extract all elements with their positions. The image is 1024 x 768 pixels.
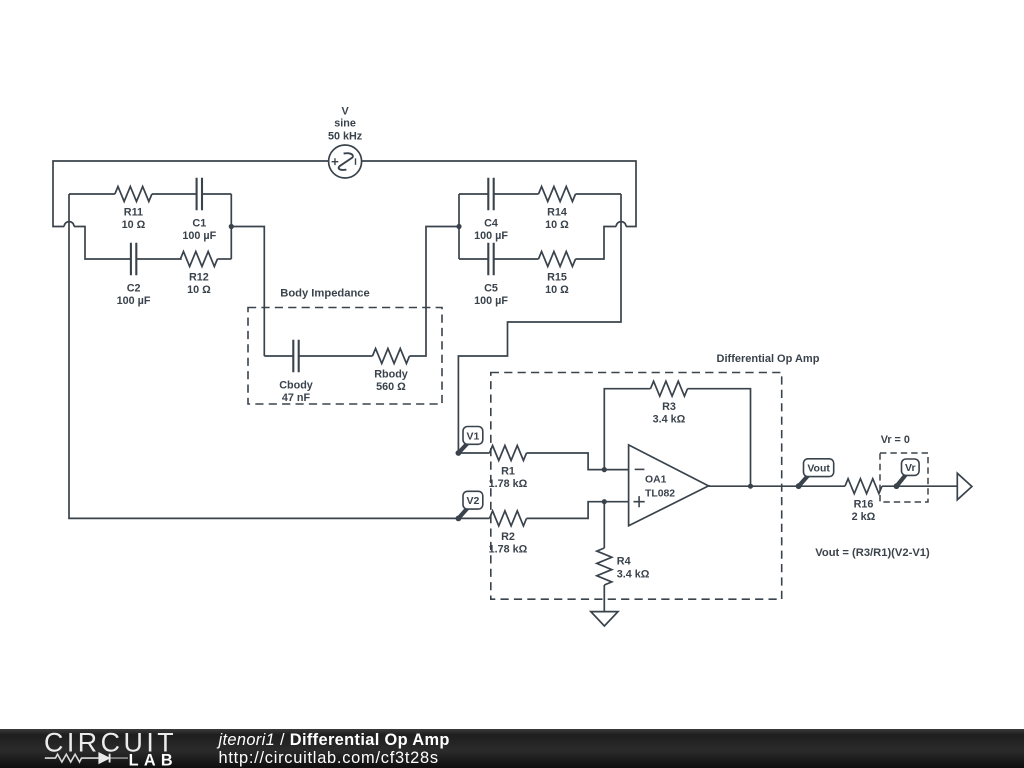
node R3 junction on output: [748, 484, 753, 489]
label V sine 50 kHz: [328, 106, 363, 143]
capacitor C1: [197, 178, 202, 211]
svg-text:C4: C4: [484, 217, 498, 229]
svg-text:3.4 kΩ: 3.4 kΩ: [653, 414, 686, 426]
svg-text:Body Impedance: Body Impedance: [280, 287, 370, 299]
label C2: [117, 282, 151, 307]
label R3: [653, 401, 686, 426]
label Body Impedance title: [280, 287, 370, 299]
ground symbol: [591, 612, 618, 626]
svg-text:1.78 kΩ: 1.78 kΩ: [489, 478, 528, 490]
wire left network right rail: [230, 194, 232, 259]
wire R3 to output: [688, 389, 751, 487]
label R14: [545, 207, 569, 232]
wire to C5 branch: [576, 227, 617, 260]
wire hop over vertical at x=621: [616, 222, 626, 227]
label OA1 TL082: [645, 474, 675, 499]
svg-text:R12: R12: [189, 272, 209, 284]
svg-text:C1: C1: [192, 217, 206, 229]
svg-text:Rbody: Rbody: [374, 369, 408, 381]
wire Rbody up to right network node: [410, 227, 460, 357]
wire C5 to R15: [494, 258, 539, 260]
svg-text:R16: R16: [854, 499, 874, 511]
svg-text:V: V: [341, 106, 349, 118]
output arrow: [957, 473, 972, 500]
svg-text:R1: R1: [501, 466, 515, 478]
svg-text:R3: R3: [662, 401, 676, 413]
footer url line: [219, 749, 439, 767]
label R16: [852, 499, 876, 524]
resistor R3: [651, 381, 688, 396]
resistor Rbody: [373, 349, 410, 364]
svg-text:C5: C5: [484, 282, 498, 294]
wire C1 to right rail: [202, 193, 231, 195]
svg-text:LAB: LAB: [129, 752, 178, 768]
voltage source V1 sine circle: [329, 145, 362, 178]
wire to C5: [459, 258, 488, 260]
svg-text:TL082: TL082: [645, 488, 675, 499]
terminal flag V2: [456, 491, 483, 521]
wire R4 to ground: [603, 585, 605, 612]
footer bar: [0, 729, 1024, 768]
svg-text:10 Ω: 10 Ω: [545, 284, 569, 296]
svg-text:10 Ω: 10 Ω: [187, 284, 211, 296]
node op-amp plus input: [602, 499, 607, 504]
wire C4 to R14: [494, 193, 539, 195]
wire V source right lead to right network: [362, 161, 636, 227]
wire V source left lead to left network: [53, 161, 329, 227]
svg-text:1.78 kΩ: 1.78 kΩ: [489, 543, 528, 555]
wire hop over vertical at x=69: [64, 222, 74, 227]
capacitor C4: [488, 178, 493, 211]
svg-text:R2: R2: [501, 531, 515, 543]
dashed box Vr: [880, 453, 928, 502]
svg-text:2 kΩ: 2 kΩ: [852, 511, 876, 523]
terminal flag V1: [456, 427, 483, 456]
svg-text:Cbody: Cbody: [279, 379, 313, 391]
svg-text:http://circuitlab.com/cf3t28s: http://circuitlab.com/cf3t28s: [219, 749, 439, 767]
footer title line: [217, 731, 450, 749]
label R1: [489, 466, 528, 491]
svg-text:47 nF: 47 nF: [282, 392, 311, 404]
svg-text:100 µF: 100 µF: [182, 230, 216, 242]
wire to C4: [459, 193, 488, 195]
dashed box Body Impedance: [248, 308, 442, 405]
capacitor C5: [488, 243, 493, 276]
wire R2 to op-amp plus: [527, 502, 629, 519]
node right network input: [456, 224, 461, 229]
wire R12 to right rail: [217, 258, 231, 260]
node left network output: [229, 224, 234, 229]
wire R14 rail down to V1 path: [458, 194, 621, 453]
CircuitLab logo word CIRCUIT: [44, 728, 177, 758]
svg-text:Vout: Vout: [807, 463, 830, 475]
resistor R16: [845, 479, 882, 494]
capacitor C2: [131, 243, 136, 276]
wire minus node up to R3: [604, 389, 650, 470]
svg-text:50 kHz: 50 kHz: [328, 130, 363, 142]
svg-text:560 Ω: 560 Ω: [376, 381, 406, 393]
svg-text:R14: R14: [547, 207, 567, 219]
label R4: [617, 556, 650, 581]
resistor R1: [490, 446, 527, 461]
label Vout equation: [815, 547, 930, 559]
svg-text:R4: R4: [617, 556, 631, 568]
svg-text:sine: sine: [334, 117, 356, 129]
svg-text:100 µF: 100 µF: [474, 230, 508, 242]
capacitor Cbody: [293, 340, 298, 373]
wire C2 to R12: [136, 258, 181, 260]
resistor R4: [597, 548, 612, 585]
wire R11 to C1: [152, 193, 197, 195]
svg-text:OA1: OA1: [645, 474, 667, 485]
wire node to body box: [231, 227, 264, 357]
resistor R2: [490, 511, 527, 526]
wire R16 to output arrow: [882, 485, 957, 487]
svg-text:R11: R11: [124, 207, 143, 219]
voltage source plus sign: [332, 158, 339, 165]
svg-text:V1: V1: [466, 430, 479, 442]
voltage source sine squiggle: [339, 153, 353, 170]
svg-text:Vr = 0: Vr = 0: [881, 434, 910, 446]
CircuitLab logo resistor-diode symbol: [45, 753, 128, 763]
wire long vertical x=69 down to V2 row: [69, 194, 458, 518]
label R15: [545, 272, 569, 297]
label Cbody: [279, 379, 313, 404]
label Differential Op Amp title: [717, 353, 820, 365]
svg-text:R15: R15: [547, 272, 567, 284]
svg-text:100 µF: 100 µF: [117, 295, 151, 307]
terminal flag Vr: [894, 459, 920, 489]
wire R14 to right rail: [576, 193, 622, 195]
node op-amp minus input: [602, 467, 607, 472]
resistor R11: [115, 187, 152, 202]
label C4: [474, 217, 508, 242]
wire into Cbody: [264, 355, 293, 357]
label R2: [489, 531, 528, 556]
wire Cbody to Rbody: [299, 355, 373, 357]
wire op-amp output to R16: [709, 485, 846, 487]
svg-text:V2: V2: [466, 495, 479, 507]
wire right network left rail: [458, 194, 460, 259]
svg-text:jtenori1 / Differential Op Amp: jtenori1 / Differential Op Amp: [217, 731, 450, 749]
svg-text:C2: C2: [127, 282, 141, 294]
label R11: [122, 207, 146, 232]
label R12: [187, 272, 211, 297]
dashed box Differential Op Amp: [491, 373, 782, 600]
CircuitLab logo word LAB: [129, 752, 178, 768]
label Vr = 0: [881, 434, 910, 446]
op-amp OA1 triangle: [629, 445, 709, 526]
wire into C2 branch: [74, 227, 131, 260]
terminal flag Vout: [796, 459, 834, 489]
op-amp plus symbol: [634, 496, 645, 507]
svg-text:3.4 kΩ: 3.4 kΩ: [617, 569, 650, 581]
label C5: [474, 282, 508, 307]
op-amp minus symbol: [635, 468, 645, 470]
wire R1 to op-amp minus: [527, 453, 629, 470]
wire top branch from x69: [69, 193, 115, 195]
label C1: [182, 217, 216, 242]
wire V2 terminal to R2: [458, 517, 489, 519]
svg-text:10 Ω: 10 Ω: [122, 219, 146, 231]
label Rbody: [374, 369, 408, 394]
wire V1 terminal to R1: [458, 452, 489, 454]
resistor R12: [180, 252, 217, 267]
svg-text:10 Ω: 10 Ω: [545, 219, 569, 231]
resistor R14: [539, 187, 576, 202]
voltage source minus bar: [355, 158, 357, 165]
svg-text:100 µF: 100 µF: [474, 295, 508, 307]
resistor R15: [539, 252, 576, 267]
svg-text:Vout = (R3/R1)(V2-V1): Vout = (R3/R1)(V2-V1): [815, 547, 930, 559]
svg-text:Vr: Vr: [905, 462, 916, 474]
wire plus node down to R4: [603, 502, 605, 548]
svg-text:Differential Op Amp: Differential Op Amp: [717, 353, 820, 365]
